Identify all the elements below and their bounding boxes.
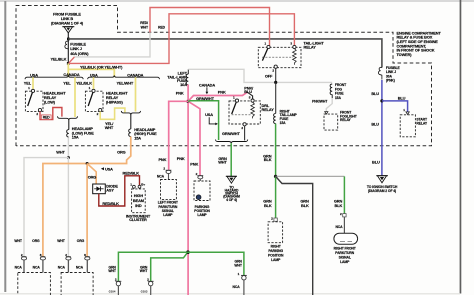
pin 2 ring terminal (branch A) <box>115 278 121 286</box>
label: DRL RELAY <box>262 103 275 112</box>
instrument cluster high beam indicator box <box>132 189 146 213</box>
wire YEL drop to headlight relay (low) <box>32 77 34 89</box>
svg-text:ORG: ORG <box>88 174 97 179</box>
fuse F4: FRONT FOG FUSE 15A symbol <box>330 84 332 98</box>
svg-text:CANADA: CANADA <box>199 82 215 87</box>
pin 2 of right front park/turn lamp <box>340 212 346 217</box>
svg-text:WHT: WHT <box>56 149 65 154</box>
svg-text:USA: USA <box>205 112 213 117</box>
wire BLU main <box>381 80 383 175</box>
wire stems into right headlamp box <box>68 260 87 273</box>
right headlamp box <box>61 273 93 295</box>
wire: pnk/blu jog into DRL relay pin <box>247 92 252 99</box>
splice merge bracket 3 <box>216 140 248 144</box>
pin 3 of tail-light relay <box>290 41 296 48</box>
svg-text:(DIAGRAM 2 OF 4): (DIAGRAM 2 OF 4) <box>368 189 396 193</box>
svg-text:CLUSTER: CLUSTER <box>129 217 147 222</box>
pin 2 of headlight relay (hi) <box>97 108 102 115</box>
switch arm of headlight relay (low) <box>28 92 33 106</box>
svg-text:NCA: NCA <box>157 175 165 179</box>
label: RIGHT FRONT PARK/TURN SIGNAL LAMP <box>334 246 357 264</box>
svg-text:WHT: WHT <box>140 269 148 273</box>
svg-text:(HI/PASS): (HI/PASS) <box>106 100 124 105</box>
label YEL/WHT (jog) <box>105 121 115 130</box>
label GRN WHT (branch B) <box>140 265 148 273</box>
relay U4: DRL RELAY box <box>229 101 260 124</box>
pin 2 of right parking position lamp <box>271 217 277 222</box>
node: ORG splice <box>86 162 89 165</box>
wire ORG branch to diode assy <box>87 164 96 185</box>
wire RED jog from relay low output to merge <box>40 108 62 120</box>
label: RIGHT TAIL-LAMP FUSE 15A <box>280 109 298 124</box>
svg-text:YEL: YEL <box>63 81 71 86</box>
label GRN WHT <box>218 156 227 165</box>
pin 1 of headlight relay (low) <box>28 86 34 92</box>
svg-text:YEL/BLK: YEL/BLK <box>50 56 66 61</box>
svg-text:PNK: PNK <box>190 162 198 167</box>
node: PNK junction <box>187 100 190 103</box>
svg-text:RELAY: RELAY <box>416 121 428 125</box>
wire GRN/WHT bottom left branch A <box>118 252 187 281</box>
fuse F2: HEADLAMP (HIGH) FUSE 15A symbol <box>129 129 131 137</box>
internal divider of DRL relay <box>232 114 252 116</box>
wire YEL/WHT jog from relay hi output to merge 2 <box>100 108 125 119</box>
svg-text:G103: G103 <box>141 290 148 294</box>
label USA with arrow into grn/wht wire <box>205 112 218 125</box>
switch arm of tail-light relay <box>262 49 267 61</box>
svg-text:WHT: WHT <box>234 263 242 267</box>
pin 2 of tail-light relay <box>272 65 277 72</box>
label: RIGHT PARKING POSITION LAMP <box>268 245 284 263</box>
wire ORG from headlamp high fuse <box>43 137 131 257</box>
label RED (boxed) <box>41 115 51 120</box>
svg-text:NCA: NCA <box>335 225 343 229</box>
pin 8 connector (left headlamp) <box>40 253 46 260</box>
svg-text:GRN/WHT: GRN/WHT <box>196 96 214 101</box>
coil of DRL relay <box>251 102 255 118</box>
relay U6: START RELAY box <box>400 115 415 137</box>
fuse F5: RIGHT TAIL-LAMP FUSE 15A symbol <box>274 113 276 123</box>
pin 2 of headlight relay (low) <box>36 108 41 115</box>
label: PARKING POSITION LAMP <box>194 205 210 217</box>
wire YEL/BLK (OR YEL/WHT) horizontal <box>68 69 114 77</box>
off-page connector triangle to ignition switch <box>376 176 388 183</box>
internal divider of tail-light relay <box>262 56 293 58</box>
svg-text:YEL/BLK (OR YEL/WHT): YEL/BLK (OR YEL/WHT) <box>80 65 123 70</box>
splice bracket left (USA/CANADA) <box>25 76 83 80</box>
fuse F3: LEFT TAIL-LAMP FUSE 10A symbol <box>186 74 188 85</box>
label: TO HAZARD SWITCH (DIAGRAM 4 OF 4) <box>223 185 240 201</box>
svg-text:RIGHT FRONT: RIGHT FRONT <box>334 246 357 250</box>
svg-text:PNK: PNK <box>176 91 184 96</box>
svg-text:PNK: PNK <box>177 156 185 161</box>
svg-text:ORG: ORG <box>32 239 40 243</box>
svg-text:RED: RED <box>158 25 166 29</box>
label: FRONT FOGLIGHT RELAY <box>340 111 358 123</box>
pin 8 connector (right headlamp) <box>84 253 90 260</box>
wire GRN/WHT stem to hazard switch connector <box>230 143 232 176</box>
svg-text:LAMP: LAMP <box>163 213 173 217</box>
svg-text:15A: 15A <box>72 135 79 140</box>
svg-text:15A: 15A <box>280 121 287 125</box>
svg-text:WHT: WHT <box>105 125 114 130</box>
svg-text:RED/BLK: RED/BLK <box>102 201 119 206</box>
label GRN BLK (right front lamp) <box>334 198 343 207</box>
off-page connector triangle A <box>62 27 74 33</box>
fuse F1: HEADLAMP (LOW) FUSE 15A symbol <box>67 130 69 138</box>
svg-text:IND: IND <box>135 203 142 208</box>
wire to right front park/turn lamp (gray segment) <box>276 175 345 177</box>
switch arm of headlight relay (hi) <box>88 92 93 106</box>
fusible link J symbol (right, 30A PNK) <box>378 67 381 79</box>
svg-text:USA: USA <box>105 166 113 171</box>
wire YEL/BLK drop to headlight relay (hi) <box>93 77 95 89</box>
svg-text:BLK: BLK <box>335 203 343 208</box>
wire GRN down to right parking position lamp <box>275 176 277 218</box>
label GRN BLK (left lower) <box>263 198 272 207</box>
bulb of parking position lamp <box>196 195 201 200</box>
wire GRN/WHT bottom right branch C <box>188 252 244 275</box>
wire YEL/WHT canada drop to merge 2 <box>135 77 137 111</box>
label NCA x4 <box>15 265 84 269</box>
wire: DRL relay pin 2 to merge bracket <box>244 126 246 140</box>
wire RED to tail-light relay pin 3 <box>68 14 294 64</box>
wire GRN segment down to right front park/turn lamp <box>343 176 345 213</box>
wire: merge 2 stem <box>130 115 132 129</box>
label: HEADLAMP (HIGH) FUSE 15A <box>134 127 157 140</box>
label: HEADLIGHT RELAY (HI/PASS) <box>106 90 128 104</box>
svg-text:4 OF 4): 4 OF 4) <box>226 198 237 202</box>
svg-text:WHT: WHT <box>108 269 116 273</box>
svg-text:RELAY: RELAY <box>304 44 317 49</box>
switch arm of DRL relay <box>232 102 237 114</box>
wire RED/BLK from diode to instrument cluster <box>99 176 140 206</box>
label GRN WHT (branch C) <box>234 260 242 268</box>
left headlamp box <box>18 273 51 295</box>
node: PNK/GRN bottom junction <box>186 250 190 254</box>
pin 2 connector (right headlamp) <box>65 253 71 260</box>
svg-text:B+: B+ <box>141 183 145 187</box>
relay U3: TAIL-LIGHT RELAY box <box>258 47 301 67</box>
svg-text:BLU: BLU <box>371 122 379 127</box>
pin 2 of DRL relay <box>241 123 246 130</box>
engine compartment relay & fuse box dashed boundary <box>16 6 432 147</box>
pin 2 of instrument cluster <box>138 183 145 189</box>
svg-text:BLK: BLK <box>264 157 272 162</box>
ground stem (branch A) <box>117 286 119 295</box>
wire PNK branch to left front park lamp <box>169 101 188 170</box>
label: INSTRUMENT CLUSTER <box>126 213 151 222</box>
wire: feed from connector A down <box>67 33 69 64</box>
pin 2 connector (left headlamp) <box>21 253 27 260</box>
svg-text:WHT: WHT <box>141 25 149 29</box>
label: HEADLAMP (LOW) FUSE 15A <box>72 126 94 139</box>
label GRN BLK (above border) <box>263 153 272 162</box>
svg-text:(DIAGRAM 1 OF 4): (DIAGRAM 1 OF 4) <box>51 20 84 25</box>
node: off junction <box>274 81 277 84</box>
svg-text:PNK/WHT: PNK/WHT <box>312 100 328 104</box>
svg-text:WHT: WHT <box>218 160 227 165</box>
svg-text:LAMP: LAMP <box>271 258 281 262</box>
svg-text:WHT: WHT <box>14 239 22 243</box>
label: HEADLIGHT RELAY (LOW) <box>44 90 66 104</box>
pin 1 of headlight relay (hi) <box>89 86 95 92</box>
wire: stem above left tail-lamp fuse <box>187 69 189 74</box>
wire stems into left headlamp box <box>24 260 43 273</box>
svg-text:CANADA: CANADA <box>63 72 79 77</box>
wire WHT branch to right headlamp <box>67 158 69 257</box>
svg-text:NCA: NCA <box>76 265 84 269</box>
off-page connector triangle to hazard switch <box>226 176 237 183</box>
svg-text:BLU: BLU <box>371 91 379 96</box>
svg-text:(LOW): (LOW) <box>44 100 56 105</box>
wire PNK diagonal branch to parking position lamp <box>188 101 200 175</box>
svg-text:PARK/TURN: PARK/TURN <box>335 251 354 255</box>
svg-text:BLU: BLU <box>398 96 406 101</box>
wire: stem into parking position lamp box <box>199 179 201 181</box>
svg-text:WHT: WHT <box>57 239 65 243</box>
pin 2 ring terminal (branch B) <box>147 278 153 286</box>
svg-text:SIGNAL: SIGNAL <box>339 256 351 260</box>
svg-text:15A: 15A <box>335 96 342 100</box>
wire PNK branch to DRL relay <box>188 92 247 101</box>
svg-text:YEL: YEL <box>24 81 32 86</box>
wire GRN/BLK black run to bottom right lamps <box>276 176 313 295</box>
splice merge bracket 1 <box>58 116 78 120</box>
wire: stem into right front park/turn lamp <box>343 217 345 233</box>
pin 1 of start relay <box>403 108 409 114</box>
right parking position lamp box <box>268 222 283 243</box>
wire RED/WHT red segment to tail-light relay pin 1 <box>150 8 270 47</box>
pin 2 of parking position lamp <box>196 172 204 179</box>
ground stem (branch C) <box>243 280 245 295</box>
left front park/turn signal lamp box <box>161 180 177 200</box>
pin 2 of left front park/turn signal lamp <box>163 167 171 174</box>
node: BLU junction <box>380 99 383 102</box>
wire YEL/BLK down from junction <box>67 63 69 77</box>
label: LEFT FRONT PARK/TURN SIGNAL LAMP <box>158 201 179 218</box>
svg-text:CANADA: CANADA <box>127 72 143 77</box>
svg-text:NCA: NCA <box>15 265 23 269</box>
label: START RELAY <box>416 118 428 126</box>
label: TO IGN/ON SWITCH (DIAGRAM 2 OF 4) <box>367 185 398 193</box>
svg-text:PNK: PNK <box>158 157 166 162</box>
node: WHT splice <box>67 156 70 159</box>
pin of fog light relay <box>325 112 328 115</box>
wire PNK/WHT from fog fuse to fog light relay <box>326 98 332 111</box>
svg-text:BLU: BLU <box>372 159 380 164</box>
label: FUSIBLE LINK J 40A (ORN) <box>70 41 89 56</box>
wire: stem into left front lamp box <box>168 174 170 180</box>
label: DIODE ASY <box>106 183 118 192</box>
wire: main feed bus to engine box right side <box>68 39 382 68</box>
label CANADA with tick <box>199 82 215 94</box>
svg-text:LAMP: LAMP <box>340 260 350 264</box>
svg-text:POSITION: POSITION <box>268 254 284 258</box>
wire YEL canada drop to merge 1 <box>74 77 76 117</box>
label: FUSIBLE LINK J 30A (PNK) <box>386 66 401 83</box>
relay U2: HEADLIGHT RELAY (HI/PASS) box <box>85 91 103 111</box>
diode assembly D1 box <box>93 184 106 194</box>
svg-text:BLU: BLU <box>244 89 252 94</box>
right front park/turn signal lamp body <box>334 233 358 244</box>
svg-text:BLK: BLK <box>264 203 272 208</box>
wire GRN/WHT from pnk junction <box>188 101 219 140</box>
svg-text:G104: G104 <box>109 290 116 294</box>
pin 1 of DRL relay <box>233 95 239 102</box>
parking position lamp box <box>194 181 210 201</box>
svg-text:PARKING: PARKING <box>268 249 283 253</box>
svg-text:TOWER): TOWER) <box>397 52 413 57</box>
svg-text:YEL/WHT: YEL/WHT <box>117 81 134 86</box>
wire WHT below headlamp low fuse <box>67 137 69 157</box>
wire: tail-light relay pin2 to off node <box>275 68 277 82</box>
relay U1: HEADLIGHT RELAY (LOW) box <box>25 91 43 111</box>
wire PNK main vertical <box>187 85 189 295</box>
coil of tail-light relay <box>293 49 297 65</box>
svg-text:BLK: BLK <box>301 203 309 208</box>
svg-text:GRN/WHT: GRN/WHT <box>222 131 240 136</box>
splice merge bracket 2 <box>121 111 140 115</box>
wire GRN/WHT bottom left branch B <box>151 253 187 281</box>
wire GRN from right tail-lamp fuse down <box>275 124 277 177</box>
label: FRONT FOG FUSE 15A <box>335 83 347 100</box>
fusible link symbol (left, 40A ORN) <box>65 41 68 49</box>
relay U5: FRONT FOG LIGHT RELAY box <box>324 114 338 130</box>
splice bracket right (USA/CANADA) <box>88 76 160 80</box>
wire WHT branch to left headlamp <box>24 158 68 257</box>
svg-text:RED: RED <box>43 116 51 120</box>
wire WHT bus from fuse top to off node and front fog fuse <box>188 69 332 82</box>
svg-text:NCA: NCA <box>33 265 41 269</box>
pin 1 ring terminal (branch C) <box>238 272 247 280</box>
wire: merge 1 stem <box>68 120 70 130</box>
svg-text:LAMP: LAMP <box>197 213 207 217</box>
label: TAIL-LIGHT RELAY <box>304 41 325 50</box>
svg-text:PNK: PNK <box>218 90 226 95</box>
svg-text:RELAY: RELAY <box>340 118 352 122</box>
pin 1 of tail-light relay <box>264 41 270 48</box>
svg-text:ORG: ORG <box>77 239 85 243</box>
wire BLU branch to start relay <box>382 101 408 112</box>
wire RED/WHT white segment with diagonal <box>69 32 150 62</box>
pin 5 of DRL relay <box>249 95 254 102</box>
svg-text:RED/BLK: RED/BLK <box>123 171 140 176</box>
svg-text:NCA: NCA <box>58 265 66 269</box>
svg-text:NCA: NCA <box>233 285 241 289</box>
label: FROM FUSIBLE LINK B (DIAGRAM 1 OF 4) <box>51 11 84 25</box>
label GRN BLK (black run) <box>300 198 309 207</box>
label: ENGINE COMPARTMENT RELAY & FUSE BOX <box>397 30 442 57</box>
svg-text:ASY: ASY <box>106 188 114 193</box>
wire ORG branch down to right headlamp <box>86 164 88 257</box>
label: LEFT TAIL-LAMP FUSE 10A <box>167 71 187 87</box>
label: HIGH BEAM IND <box>133 193 144 208</box>
svg-text:40A (ORN): 40A (ORN) <box>70 51 89 56</box>
svg-text:YEL/BLK: YEL/BLK <box>76 81 92 86</box>
wire: off node down to right tail-lamp fuse <box>275 82 277 113</box>
svg-text:USA: USA <box>30 72 38 77</box>
svg-text:(PNK): (PNK) <box>386 79 395 83</box>
pin 1 of instrument cluster <box>130 183 135 189</box>
svg-text:ORG: ORG <box>117 150 126 155</box>
svg-text:OFF: OFF <box>265 74 273 79</box>
ground stem (branch B) <box>150 286 152 295</box>
svg-text:RIGHT: RIGHT <box>271 245 282 249</box>
svg-text:15A: 15A <box>134 135 141 140</box>
label: RED/WHT <box>140 21 149 29</box>
label USA with left arrow <box>101 166 113 171</box>
node: YEL/BLK junction <box>67 62 70 65</box>
label GRN WHT (branch A) <box>108 265 116 273</box>
svg-text:RELAY: RELAY <box>262 107 275 112</box>
node: main feed junction <box>67 38 70 41</box>
svg-text:USA: USA <box>90 72 98 77</box>
node: GRN junction <box>274 175 277 178</box>
label PNK/BLU <box>244 86 254 95</box>
